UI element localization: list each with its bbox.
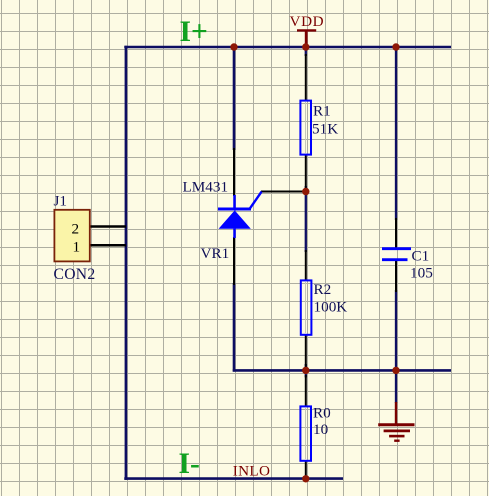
wire LM431 cathode column (233, 46, 236, 150)
svg-text:I+: I+ (180, 16, 208, 48)
junction at VDD rail (302, 43, 309, 50)
svg-text:51K: 51K (312, 121, 338, 138)
svg-text:R1: R1 (313, 102, 331, 119)
svg-text:1: 1 (73, 238, 81, 255)
wire LM431 anode column (233, 283, 236, 372)
wire left vertical (I+ to I- via J1) (125, 46, 128, 480)
resistor R2 (301, 280, 312, 334)
svg-text:LM431: LM431 (183, 178, 229, 195)
svg-text:J1: J1 (54, 193, 68, 210)
pin R2.2 (305, 334, 307, 367)
svg-text:R0: R0 (313, 405, 331, 422)
junction at R0 bottom I- rail (302, 475, 309, 482)
svg-text:2: 2 (72, 220, 80, 237)
svg-text:C1: C1 (412, 248, 430, 265)
svg-text:INLO: INLO (233, 463, 270, 480)
junction at reference node (302, 188, 309, 195)
svg-text:VDD: VDD (290, 13, 325, 30)
pin VR1 anode (233, 237, 235, 285)
pin J1.1 (90, 244, 126, 247)
wire C1 top column (395, 47, 397, 220)
pin R2.1 (305, 250, 307, 281)
pin C1.2 (395, 261, 397, 292)
wire mid rail (anode row) (233, 369, 451, 372)
svg-text:100K: 100K (314, 299, 348, 316)
resistor R1 (300, 101, 311, 155)
resistor R0 (300, 406, 311, 460)
pin VR1 reference (261, 191, 306, 193)
pin R1.2 (305, 154, 307, 189)
pin VR1 cathode (233, 148, 235, 196)
wire C1 bottom column (395, 290, 397, 403)
pin R1.1 (305, 54, 307, 101)
wire bottom I- rail (124, 477, 343, 480)
junction at ground mid rail (392, 367, 399, 374)
shunt regulator VR1 (TL431) (218, 192, 262, 238)
power symbol VDD bar (297, 30, 316, 47)
junction at C1 top rail (392, 43, 399, 50)
ground symbol (378, 402, 414, 441)
wire R2-R0 link (305, 364, 307, 377)
wire R1 top stub (305, 47, 307, 56)
connector J1 (54, 210, 89, 262)
svg-text:R2: R2 (314, 281, 332, 298)
junction at R2 bottom mid rail (302, 367, 309, 374)
svg-text:CON2: CON2 (54, 266, 96, 283)
wire R1-R2 link (305, 186, 307, 252)
pin R0.2 (305, 460, 307, 479)
pin C1.1 (395, 218, 397, 248)
svg-text:VR1: VR1 (201, 245, 230, 262)
pin R0.1 (305, 375, 307, 407)
capacitor C1 (382, 249, 411, 260)
junction at VR1 cathode rail (230, 43, 237, 50)
wire top I+ rail (124, 46, 451, 49)
svg-text:I-: I- (179, 448, 200, 480)
svg-text:105: 105 (410, 265, 433, 282)
svg-text:10: 10 (313, 421, 329, 438)
pin J1.2 (90, 225, 126, 228)
